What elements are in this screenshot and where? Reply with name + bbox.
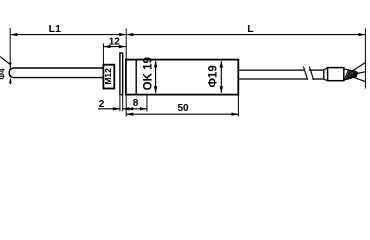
- svg-text:Φ19: Φ19: [208, 65, 220, 87]
- svg-text:50: 50: [177, 103, 189, 114]
- svg-text:L: L: [247, 23, 254, 35]
- svg-text:L1: L1: [49, 23, 61, 35]
- svg-text:M12: M12: [103, 68, 113, 85]
- svg-text:2: 2: [99, 99, 105, 110]
- svg-text:OK 19: OK 19: [142, 57, 154, 90]
- svg-text:Φ4: Φ4: [0, 68, 6, 80]
- svg-text:8: 8: [133, 98, 139, 109]
- svg-text:12: 12: [109, 37, 121, 48]
